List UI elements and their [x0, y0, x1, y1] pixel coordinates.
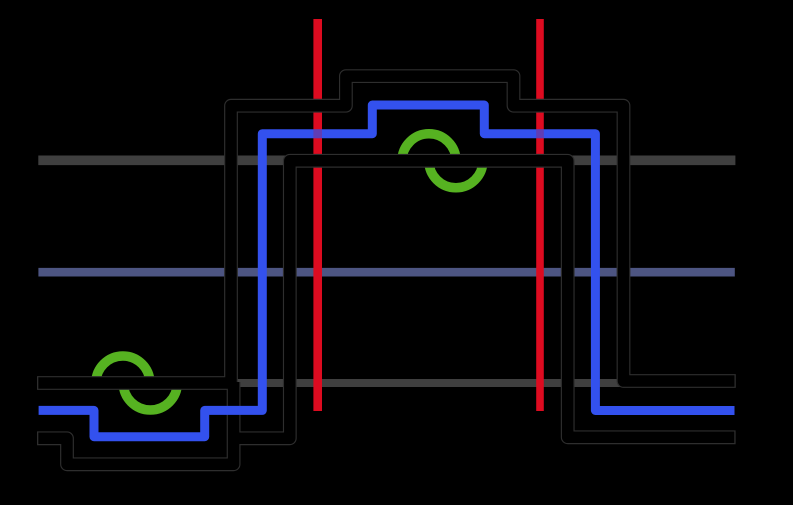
AC source V1 lower arc — [429, 161, 483, 188]
red-blue crossing tint at R1 — [313, 129, 322, 138]
AC source V2 lower arc — [123, 383, 177, 410]
black wire P outline (lower-left loop) — [37, 382, 234, 464]
red feeder R1 — [313, 19, 322, 411]
red feeder R2 — [536, 19, 544, 411]
bus line L2 (slate, middle) — [38, 268, 734, 277]
black wire P fill — [38, 382, 233, 464]
black wire O fill — [38, 76, 734, 383]
AC source V2 upper arc — [96, 356, 150, 383]
bus line L1 (gray, top) — [38, 156, 735, 166]
black wire O outline (outer loop) — [37, 76, 736, 383]
bus line L3 (gray, bottom) — [38, 379, 630, 387]
red-blue crossing tint at R2 — [536, 129, 544, 138]
AC source V1 upper arc — [402, 134, 456, 161]
blue wire B — [39, 105, 735, 437]
black wire Q fill — [234, 161, 735, 439]
black wire Q outline (inner loop) — [234, 161, 736, 439]
